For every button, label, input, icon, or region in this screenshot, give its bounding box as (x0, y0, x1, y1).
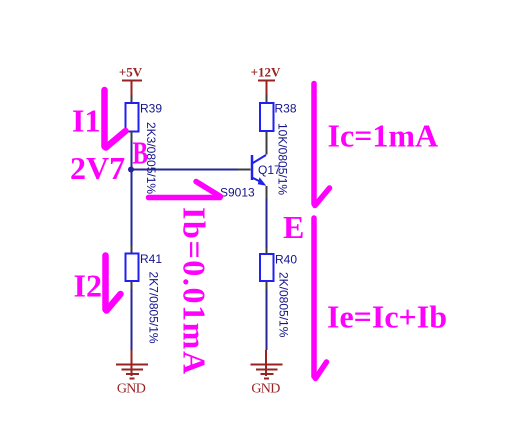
svg-text:+12V: +12V (251, 65, 281, 80)
svg-text:2K7/0805/1%: 2K7/0805/1% (147, 272, 161, 344)
transistor Q17 (252, 155, 281, 186)
pin R40.1 (266, 248, 268, 255)
annotation text B (133, 135, 149, 171)
annotation text E (283, 209, 304, 245)
svg-text:2V7: 2V7 (70, 150, 125, 186)
value 2K/0805/1% (277, 272, 291, 338)
svg-text:R38: R38 (275, 102, 297, 116)
svg-text:Ic=1mA: Ic=1mA (328, 117, 439, 153)
pin Q17 collector (266, 131, 268, 155)
wire node B to Q17 base (132, 169, 239, 171)
annotation arrow Ib (149, 182, 221, 198)
svg-text:S9013: S9013 (220, 186, 255, 200)
svg-text:I2: I2 (74, 268, 102, 304)
annotation text Ib=0.01mA (177, 207, 213, 376)
ground right (251, 350, 283, 397)
svg-text:GND: GND (117, 382, 146, 397)
pin R39.1 (131, 95, 133, 103)
svg-text:E: E (283, 209, 304, 245)
value 10K/0805/1% (276, 123, 290, 195)
pin R38.1 (266, 95, 268, 104)
wire R41 to GND (131, 289, 133, 350)
svg-text:I1: I1 (72, 103, 100, 139)
svg-text:10K/0805/1%: 10K/0805/1% (276, 123, 290, 195)
ground left (116, 350, 148, 397)
svg-text:Q17: Q17 (258, 163, 281, 177)
svg-text:R39: R39 (140, 102, 162, 116)
wire R39 to node B (131, 141, 133, 170)
annotation text Ie=Ic+Ib (327, 298, 447, 334)
resistor R41 (126, 252, 163, 281)
pin R39.2 (131, 132, 133, 142)
resistor R40 (260, 253, 297, 282)
svg-text:R41: R41 (140, 252, 162, 266)
pin Q17 emitter (266, 186, 268, 199)
annotation arrow I2 (106, 256, 121, 311)
annotation text 2V7 (70, 150, 125, 186)
power +12V (251, 65, 281, 95)
pin R41.2 (131, 281, 133, 289)
resistor R38 (260, 102, 297, 132)
annotation bracket Ie (314, 218, 327, 379)
resistor R39 (126, 102, 163, 132)
annotation text I1 (72, 103, 100, 139)
node B junction (128, 167, 134, 173)
annotation text I2 (74, 268, 102, 304)
wire emitter to R40 (266, 199, 268, 248)
annotation bracket Ic (314, 84, 330, 206)
pin R40.2 (266, 281, 268, 289)
annotation text Ic=1mA (328, 117, 439, 153)
value 2K3/0805/1% (144, 122, 158, 194)
svg-text:2K/0805/1%: 2K/0805/1% (277, 272, 291, 338)
wire node B to R41 (131, 170, 133, 247)
svg-text:Ie=Ic+Ib: Ie=Ic+Ib (327, 298, 447, 334)
pin Q17 base (238, 169, 251, 171)
svg-text:R40: R40 (275, 253, 297, 267)
svg-text:+5V: +5V (119, 65, 143, 80)
pin R41.1 (131, 246, 133, 254)
svg-text:B: B (133, 135, 149, 171)
wire R40 to GND (266, 289, 268, 350)
svg-text:Ib=0.01mA: Ib=0.01mA (177, 207, 213, 376)
value 2K7/0805/1% (147, 272, 161, 344)
power +5V (119, 65, 143, 96)
annotation arrow I1 (105, 90, 126, 148)
svg-text:GND: GND (251, 382, 280, 397)
label S9013 (220, 186, 255, 200)
